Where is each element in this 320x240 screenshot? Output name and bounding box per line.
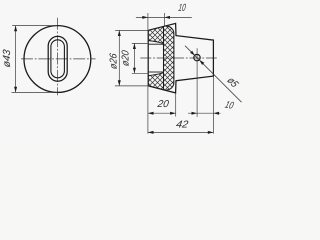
svg-text:20: 20	[156, 99, 170, 110]
left view vertical centerline	[56, 18, 58, 96]
dimension 42 right arrow	[208, 131, 214, 134]
dimension phi43 bottom arrow	[14, 87, 17, 93]
cap bottom flange inner edge	[148, 73, 163, 76]
rubber cap bottom flange hatched section	[148, 73, 163, 90]
svg-text:ø20: ø20	[120, 49, 131, 66]
dimension 10 (top) right extension line	[163, 13, 165, 26]
cap end-wall left edge	[163, 27, 165, 90]
svg-text:ø26: ø26	[109, 52, 120, 69]
rubber cap top flange hatched section	[148, 27, 163, 44]
dimension phi5 leader line	[185, 46, 242, 102]
dimension phi5 upper arrow	[190, 51, 195, 56]
dimension phi20 top arrow	[133, 43, 136, 49]
dimension phi20 bottom arrow	[133, 68, 136, 74]
dimension 10 (bottom) dimension line	[188, 112, 221, 114]
dimension phi43 top extension line	[12, 25, 57, 27]
bottom right vertical extension line	[212, 77, 214, 134]
right view horizontal centerline	[140, 57, 217, 59]
left view horizontal centerline	[21, 58, 96, 60]
bottom cone-peak vertical extension line	[175, 93, 177, 116]
dimension phi26 bottom extension line	[115, 85, 148, 87]
cap end-wall rounded right profile	[166, 26, 174, 90]
dimension 10 (bottom) left arrow	[192, 112, 198, 115]
dimension 42 dimension line	[148, 131, 214, 133]
dimension 10 (top) right arrow	[164, 16, 170, 19]
dimension 10 (top) left extension line	[147, 13, 149, 30]
dimension 10 (bottom) right arrow	[213, 112, 219, 115]
dimension 10 (top) dimension line	[136, 16, 192, 18]
left view oval slot outer contour	[48, 36, 67, 81]
dimension phi26 top arrow	[118, 30, 121, 36]
stem top surface line	[148, 43, 163, 45]
dimension phi20 dimension line	[133, 43, 135, 73]
svg-text:ø43: ø43	[2, 49, 13, 68]
hole phi5 vertical centerline / extension line	[196, 48, 198, 117]
left view oval slot inner contour	[51, 40, 65, 78]
dimension phi26 top extension line	[115, 29, 148, 31]
body outline	[148, 23, 213, 93]
cap top flange inner edge	[148, 41, 163, 44]
dimension phi43 top arrow	[14, 26, 17, 32]
svg-text:42: 42	[175, 120, 189, 131]
dimension phi43 dimension line	[15, 26, 17, 93]
dimension phi20 top extension line	[132, 42, 149, 44]
dimension 10 (top) left arrow	[142, 16, 148, 19]
rubber cap end-wall hatched section	[164, 26, 174, 90]
dimension 42 left arrow	[148, 131, 154, 134]
dimension phi20 bottom extension line	[132, 72, 149, 74]
dimension 20 (bottom) dimension line	[148, 112, 176, 114]
hole phi5 circle	[194, 54, 200, 60]
dimension phi26 bottom arrow	[118, 80, 121, 86]
dimension phi26 dimension line	[118, 30, 120, 86]
dimension 20 (bottom) right arrow	[170, 112, 176, 115]
dimension 20 (bottom) left arrow	[148, 112, 154, 115]
bottom left vertical extension line	[147, 87, 149, 134]
dimension phi43 bottom extension line	[12, 91, 58, 93]
dimension phi5 lower arrow	[199, 60, 204, 65]
stem bottom surface line	[148, 71, 163, 73]
left view outer circle (cap rim, diameter 43)	[24, 26, 91, 93]
